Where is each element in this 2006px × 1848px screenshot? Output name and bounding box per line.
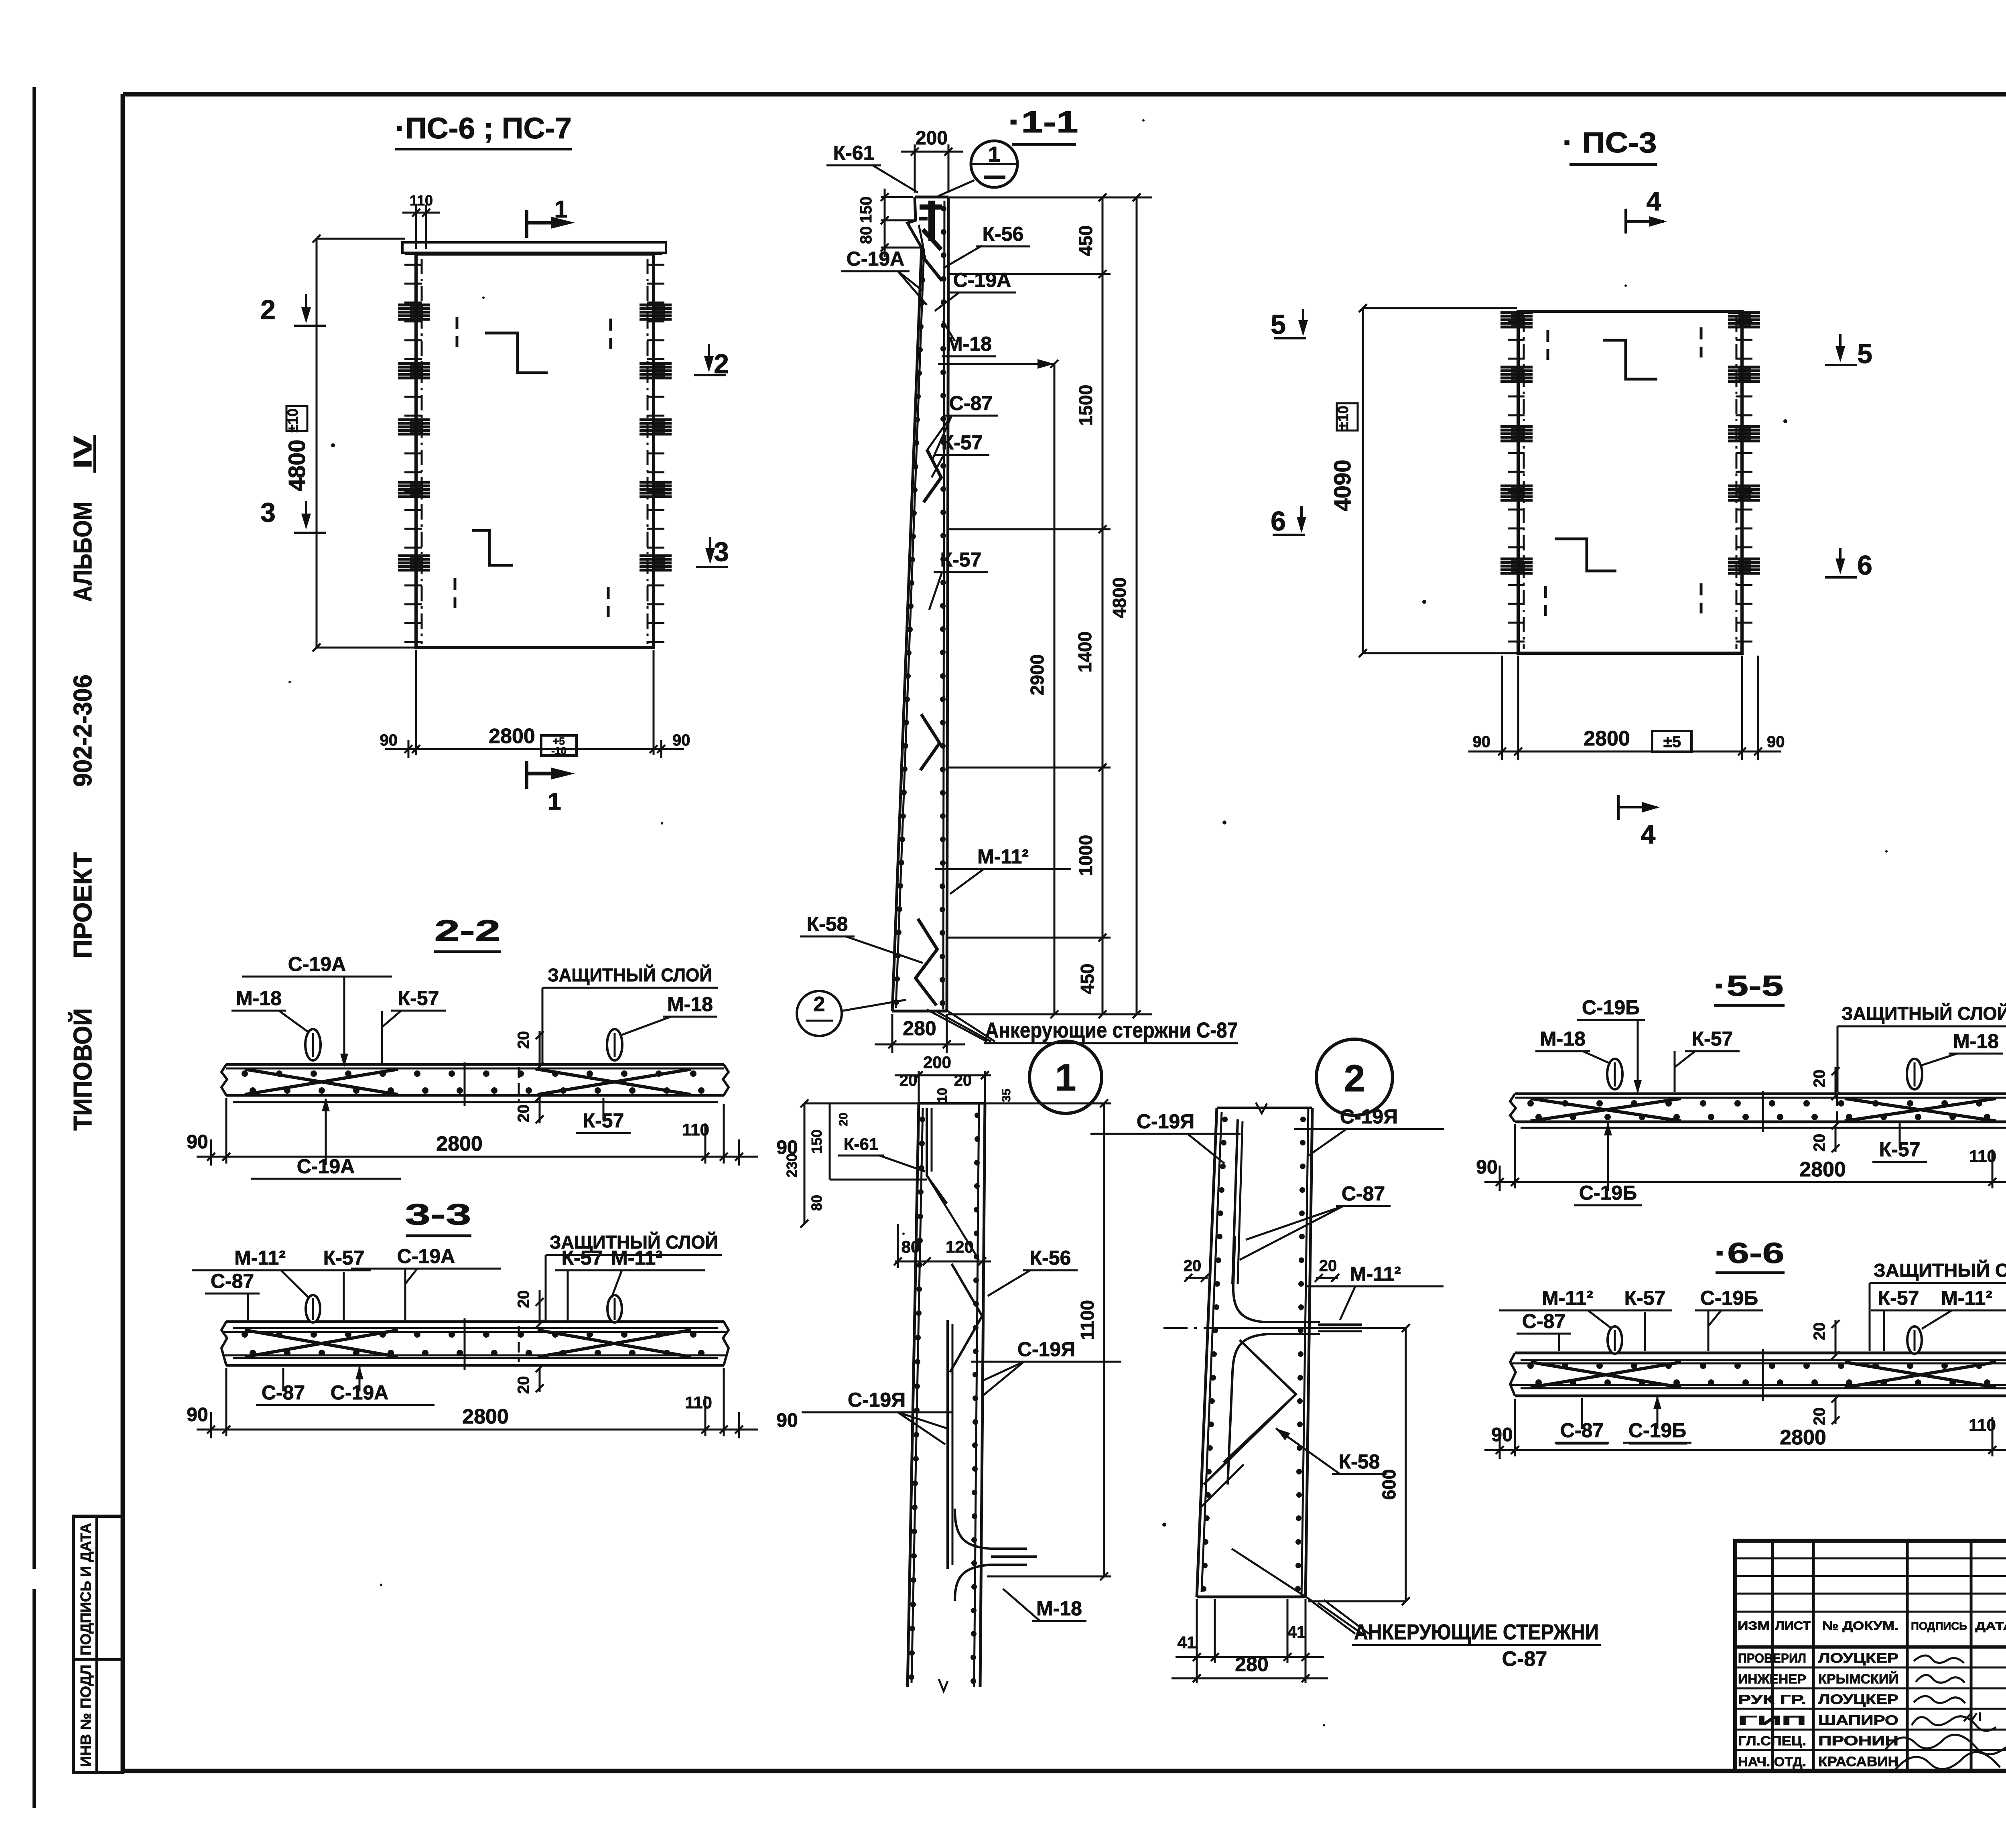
svg-text:280: 280 [903, 1017, 936, 1040]
svg-text:4090: 4090 [1330, 459, 1356, 511]
svg-text:М-11²: М-11² [1350, 1263, 1401, 1285]
svg-text:С-19Я: С-19Я [1017, 1338, 1075, 1361]
svg-text:110: 110 [682, 1120, 709, 1139]
svg-text:М-11²: М-11² [977, 845, 1029, 868]
svg-text:С-19А: С-19А [847, 248, 904, 270]
svg-text:КРАСАВИН: КРАСАВИН [1818, 1754, 1898, 1769]
svg-text:±5: ±5 [1663, 733, 1681, 751]
svg-text:К-57: К-57 [323, 1247, 365, 1269]
svg-text:2-2: 2-2 [434, 914, 501, 947]
svg-text:1000: 1000 [1075, 835, 1096, 876]
svg-text:2800: 2800 [489, 725, 535, 748]
svg-text:2800: 2800 [462, 1405, 509, 1428]
svg-text:М-11²: М-11² [611, 1247, 662, 1269]
svg-text:2: 2 [260, 294, 276, 325]
svg-text:М-11²: М-11² [1542, 1287, 1593, 1309]
svg-text:20: 20 [515, 1105, 532, 1123]
svg-text:1: 1 [548, 788, 561, 815]
svg-text:К-57: К-57 [562, 1247, 603, 1269]
svg-text:К-57: К-57 [940, 548, 982, 571]
svg-text:4800: 4800 [284, 439, 310, 491]
svg-text:5: 5 [1271, 309, 1286, 340]
svg-text:110: 110 [1969, 1147, 1996, 1166]
svg-text:90: 90 [1473, 733, 1491, 751]
svg-text:1400: 1400 [1074, 632, 1095, 672]
svg-text:1: 1 [554, 196, 567, 223]
svg-text:КРЫМСКИЙ: КРЫМСКИЙ [1818, 1671, 1898, 1687]
svg-text:ПРОВЕРИЛ: ПРОВЕРИЛ [1738, 1651, 1806, 1665]
svg-text:С-87: С-87 [1502, 1647, 1547, 1671]
svg-text:110: 110 [1969, 1415, 1996, 1434]
svg-text:200: 200 [916, 128, 948, 149]
svg-text:М-18: М-18 [1953, 1030, 1999, 1052]
svg-text:110: 110 [410, 192, 433, 209]
svg-text:3: 3 [714, 536, 729, 567]
svg-text:НАЧ. ОТД.: НАЧ. ОТД. [1738, 1755, 1806, 1769]
svg-text:·1-1: ·1-1 [1008, 105, 1078, 139]
svg-text:ЗАЩИТНЫЙ СЛОЙ: ЗАЩИТНЫЙ СЛОЙ [1874, 1260, 2006, 1281]
svg-text:ПРОНИН: ПРОНИН [1818, 1733, 1898, 1748]
svg-text:35: 35 [1000, 1088, 1013, 1102]
svg-text:280: 280 [1235, 1653, 1268, 1675]
svg-text:М-18: М-18 [236, 987, 282, 1009]
svg-text:ЗАЩИТНЫЙ СЛОЙ: ЗАЩИТНЫЙ СЛОЙ [548, 965, 712, 985]
svg-text:М-18: М-18 [1540, 1028, 1586, 1050]
svg-text:К-57: К-57 [1878, 1287, 1919, 1309]
svg-text:1: 1 [988, 142, 1000, 167]
svg-text:М-18: М-18 [1036, 1597, 1082, 1620]
svg-text:К-56: К-56 [983, 223, 1024, 245]
svg-text:К-57: К-57 [1624, 1287, 1666, 1309]
svg-text:С-19Я: С-19Я [1137, 1110, 1194, 1133]
svg-text:450: 450 [1075, 225, 1096, 256]
svg-text:ПРОЕКТ: ПРОЕКТ [68, 852, 97, 959]
svg-text:600: 600 [1379, 1469, 1399, 1500]
svg-text:С-87: С-87 [211, 1270, 254, 1292]
svg-text:20: 20 [515, 1290, 532, 1308]
svg-text:РУК ГР.: РУК ГР. [1738, 1692, 1806, 1707]
svg-text:6: 6 [1857, 550, 1872, 581]
svg-text:±10: ±10 [1335, 406, 1351, 430]
svg-text:С-19А: С-19А [397, 1245, 455, 1267]
svg-text:ИЗМ: ИЗМ [1738, 1619, 1770, 1633]
svg-text:IV: IV [68, 436, 97, 469]
svg-text:С-87: С-87 [1522, 1310, 1565, 1332]
svg-text:ШАПИРО: ШАПИРО [1818, 1713, 1898, 1728]
svg-text:4: 4 [1647, 186, 1661, 216]
svg-text:К-57: К-57 [942, 431, 983, 454]
svg-text:20: 20 [1811, 1134, 1828, 1152]
svg-text:41: 41 [1178, 1633, 1196, 1652]
svg-text:150: 150 [857, 197, 875, 223]
svg-text:20: 20 [1811, 1070, 1828, 1088]
svg-text:·ПС-6 ; ПС-7: ·ПС-6 ; ПС-7 [395, 112, 572, 145]
svg-text:2800: 2800 [1780, 1426, 1826, 1449]
svg-text:ИНВ № ПОДЛ: ИНВ № ПОДЛ [77, 1665, 94, 1767]
svg-text:К-56: К-56 [1030, 1247, 1071, 1269]
svg-text:ТИПОВОЙ: ТИПОВОЙ [68, 1008, 97, 1131]
svg-text:К-58: К-58 [807, 913, 848, 935]
svg-text:6: 6 [1271, 506, 1286, 536]
svg-text:АЛЬБОМ: АЛЬБОМ [68, 502, 97, 602]
svg-text:150: 150 [808, 1129, 825, 1153]
svg-text:2: 2 [1344, 1057, 1365, 1100]
svg-text:ГИП: ГИП [1738, 1713, 1806, 1728]
svg-text:К-57: К-57 [1692, 1028, 1733, 1050]
svg-text:ДАТА: ДАТА [1976, 1620, 2006, 1632]
svg-text:20: 20 [1184, 1257, 1202, 1275]
svg-text:90: 90 [1476, 1157, 1497, 1178]
svg-text:3: 3 [260, 497, 276, 528]
svg-text:ЛОУЦКЕР: ЛОУЦКЕР [1818, 1651, 1898, 1666]
svg-text:2800: 2800 [1799, 1158, 1846, 1181]
svg-text:90: 90 [672, 731, 690, 749]
svg-text:ЗАЩИТНЫЙ СЛОЙ: ЗАЩИТНЫЙ СЛОЙ [1842, 1003, 2006, 1024]
svg-text:120: 120 [946, 1237, 974, 1256]
svg-text:902-2-306: 902-2-306 [68, 674, 97, 787]
svg-text:110: 110 [685, 1393, 712, 1412]
svg-text:АНКЕРУЮЩИЕ СТЕРЖНИ: АНКЕРУЮЩИЕ СТЕРЖНИ [1354, 1620, 1599, 1644]
svg-text:С-19Б: С-19Б [1582, 996, 1640, 1019]
svg-text:230: 230 [784, 1153, 800, 1178]
svg-text:К-58: К-58 [1339, 1450, 1380, 1473]
svg-text:М-11²: М-11² [234, 1247, 286, 1269]
svg-text:90: 90 [1491, 1424, 1513, 1446]
svg-text:90: 90 [776, 1410, 798, 1431]
svg-text:20: 20 [837, 1113, 850, 1126]
svg-text:С-19Я: С-19Я [1340, 1105, 1398, 1128]
svg-text:ГЛ.СПЕЦ.: ГЛ.СПЕЦ. [1738, 1734, 1806, 1748]
svg-text:·5-5: ·5-5 [1714, 970, 1784, 1002]
svg-text:2: 2 [814, 993, 825, 1016]
svg-text:20: 20 [1811, 1322, 1828, 1340]
svg-text:ИНЖЕНЕР: ИНЖЕНЕР [1738, 1672, 1806, 1686]
svg-text:200: 200 [923, 1053, 951, 1072]
svg-text:С-87: С-87 [1342, 1182, 1385, 1205]
svg-text:-10: -10 [551, 745, 566, 757]
svg-text:20: 20 [515, 1376, 532, 1394]
svg-text:3-3: 3-3 [405, 1198, 471, 1231]
svg-text:ЛОУЦКЕР: ЛОУЦКЕР [1818, 1692, 1898, 1707]
svg-text:5: 5 [1857, 339, 1872, 369]
svg-text:1500: 1500 [1075, 385, 1096, 426]
svg-text:С-19А: С-19А [288, 953, 346, 975]
svg-text:80: 80 [901, 1237, 920, 1256]
svg-text:450: 450 [1077, 964, 1098, 995]
svg-text:90: 90 [187, 1131, 208, 1153]
svg-text:С-19Б: С-19Б [1700, 1287, 1758, 1309]
svg-text:2800: 2800 [436, 1132, 483, 1156]
svg-text:М-11²: М-11² [1941, 1287, 1992, 1309]
svg-text:20: 20 [899, 1072, 918, 1089]
svg-text:20: 20 [1811, 1407, 1828, 1426]
svg-text:20: 20 [954, 1072, 972, 1089]
svg-text:80: 80 [808, 1195, 825, 1211]
svg-text:41: 41 [1287, 1623, 1306, 1641]
svg-text:№ ДОКУМ.: № ДОКУМ. [1822, 1619, 1898, 1633]
svg-text:80: 80 [857, 226, 875, 244]
svg-text:К-61: К-61 [833, 142, 875, 164]
svg-text:20: 20 [1319, 1257, 1337, 1275]
svg-text:90: 90 [1767, 733, 1785, 751]
svg-text:· ПС-3: · ПС-3 [1563, 127, 1657, 159]
svg-text:4: 4 [1641, 819, 1656, 849]
svg-text:90: 90 [380, 731, 398, 749]
svg-text:К-57: К-57 [398, 987, 439, 1009]
svg-text:ПОДПИСЬ И ДАТА: ПОДПИСЬ И ДАТА [77, 1523, 94, 1655]
svg-text:90: 90 [187, 1404, 208, 1426]
svg-text:±10: ±10 [284, 408, 301, 433]
svg-text:ПОДПИСЬ: ПОДПИСЬ [1911, 1620, 1967, 1632]
svg-text:·6-6: ·6-6 [1714, 1237, 1785, 1269]
svg-text:Анкерующие стержни С-87: Анкерующие стержни С-87 [985, 1018, 1238, 1042]
svg-text:ЛИСТ: ЛИСТ [1775, 1619, 1811, 1633]
svg-text:10: 10 [935, 1088, 950, 1103]
svg-text:2900: 2900 [1027, 654, 1048, 695]
svg-text:1: 1 [1055, 1056, 1076, 1099]
svg-text:2800: 2800 [1584, 727, 1630, 750]
svg-text:С-87: С-87 [949, 392, 993, 414]
svg-text:4800: 4800 [1109, 577, 1130, 618]
svg-text:К-61: К-61 [844, 1135, 878, 1153]
svg-text:20: 20 [515, 1031, 532, 1049]
svg-text:С-19Я: С-19Я [848, 1389, 906, 1411]
svg-text:1100: 1100 [1077, 1300, 1098, 1340]
svg-text:С-19А: С-19А [953, 269, 1011, 291]
svg-text:М-18: М-18 [667, 993, 713, 1015]
